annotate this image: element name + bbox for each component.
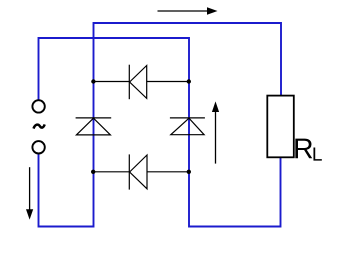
wire bridge left side (blue) bbox=[93, 82, 95, 172]
node junction bridge top-left bbox=[91, 79, 95, 83]
AC source bottom terminal bbox=[32, 141, 44, 153]
node junction bridge bottom-left bbox=[91, 170, 95, 174]
diode D3 right arm (pointing up) bbox=[170, 118, 205, 135]
wire from bridge top-left corner to load resistor top (blue) bbox=[94, 23, 282, 96]
wire bridge bottom side left segment bbox=[94, 171, 130, 173]
wire bridge bottom side right segment bbox=[147, 171, 189, 173]
diode D4 bottom arm (pointing left) bbox=[129, 154, 147, 189]
node junction bridge bottom-right bbox=[187, 170, 191, 174]
label RL value bbox=[295, 139, 321, 161]
current arrow right of bridge (pointing up) bbox=[212, 101, 219, 163]
wire from AC source top terminal to bridge top-right corner (blue) bbox=[39, 38, 190, 100]
wire bridge top side right segment bbox=[147, 81, 189, 83]
wire from load resistor bottom to bridge bottom-right corner (blue) bbox=[189, 157, 281, 226]
AC source tilde symbol bbox=[34, 124, 45, 128]
wire from AC source bottom terminal to bridge bottom-left corner (blue) bbox=[39, 154, 94, 226]
diode D2 left arm (pointing up) bbox=[76, 118, 112, 135]
current arrow top (pointing right) bbox=[158, 7, 218, 14]
diode D1 top arm (pointing left) bbox=[129, 65, 146, 100]
AC source top terminal bbox=[32, 100, 44, 112]
current arrow left side (pointing down) bbox=[26, 167, 33, 219]
wire bridge right side (blue) bbox=[188, 82, 190, 172]
wire bridge top side left segment bbox=[94, 81, 130, 83]
resistor RL body bbox=[267, 96, 294, 158]
node junction bridge top-right bbox=[187, 79, 191, 83]
